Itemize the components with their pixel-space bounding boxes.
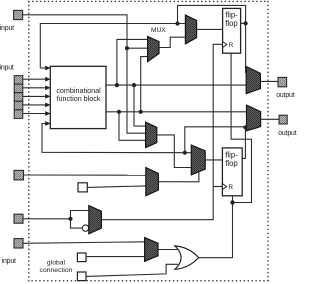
svg-text:global: global (47, 259, 66, 266)
svg-text:connection: connection (40, 267, 73, 274)
programmable bit box S1 (78, 183, 87, 192)
input pad column P2 (5 stacked pads) (14, 76, 23, 119)
inverter bubble (82, 225, 88, 231)
wire: FF1 Q feedback top route (178, 5, 246, 23)
wire: FF2 Q feedback to T4 input, T5 input and comb block bottom input (42, 124, 247, 159)
OR gate (175, 246, 199, 269)
node: T1 input / FF1 feedback junction (175, 21, 179, 25)
node: clock junction at FF2 bottom (230, 200, 234, 204)
mux T7 (reset select) (89, 206, 102, 234)
flip-flop FF2 (222, 148, 242, 196)
wire: P3 to T9 input 1 (24, 174, 146, 176)
node: out2 branch to T2 (139, 110, 143, 114)
wire: T1 output to FF1 D (197, 28, 223, 30)
wire: T5 output to FF2 D (205, 159, 222, 161)
mux T8 (clock select) (145, 238, 158, 262)
programmable bit box S2 (77, 253, 86, 262)
flip-flop FF1 (223, 8, 241, 53)
output pad 2 (279, 115, 287, 124)
svg-text:R: R (229, 42, 234, 49)
node: input1 branch junction (125, 46, 129, 50)
svg-text:function block: function block (57, 94, 101, 103)
node: FF2 Q to T4 junction (243, 125, 247, 129)
input pad P4 (14, 214, 23, 223)
input pad P3 (14, 170, 24, 180)
node: FF1 Q junction (244, 21, 248, 25)
wire: R select net from T7 output up to both flip-flop R inputs (101, 44, 222, 219)
dashed cell boundary (dotted border rectangle) (29, 1, 268, 280)
FF2 R clock-style triangle (222, 184, 226, 190)
output pad 1 (278, 77, 287, 86)
wire: S2 to T8 input 2 (86, 256, 145, 258)
wire: T3 output to output pad 1 (260, 80, 278, 82)
wire: T8 output to OR gate (158, 249, 178, 251)
wire: T2 output up to T1 second input (159, 37, 186, 47)
wire: input P1 to MUX T2 and down to T6 (23, 15, 148, 133)
mux T2 (148, 36, 159, 61)
mux T5 (191, 145, 205, 175)
arrowheads into block (5 pad inputs) (45, 77, 50, 116)
node: P4 branch junction (68, 217, 72, 221)
programmable bit box S3 (77, 272, 86, 281)
arrowhead comb bottom input (45, 121, 50, 126)
mux T1 (top MUX) (185, 15, 196, 44)
wire: FF1 Q down to output buffer T3 input (245, 23, 248, 72)
mux T9 (select generator for T5) (146, 168, 159, 196)
wire: T6 output to T5 lower input (157, 135, 192, 168)
svg-text:MUX: MUX (151, 27, 166, 34)
wire: S1 to T9 input 2 (87, 186, 145, 188)
svg-text:output: output (278, 130, 296, 137)
svg-text:input: input (2, 258, 16, 265)
FF1 R clock-style triangle (223, 42, 227, 48)
wire: comb out2 (y=111.8) to output buffer T4 with branches (106, 57, 247, 141)
combinational function block (50, 66, 106, 128)
svg-text:flop: flop (225, 159, 238, 168)
wire: T9 output to T5 select (bottom) (158, 172, 199, 182)
output buffer T3 (246, 67, 260, 94)
arrowhead block top input (45, 66, 50, 71)
wire: S3 to OR gate lower input (86, 264, 179, 276)
wires: 5 pad inputs with arrows into combinational block (23, 79, 47, 113)
node: feedback to T5 junction (183, 151, 187, 155)
svg-text:R: R (228, 184, 233, 191)
input pad P1 (top left) (14, 10, 23, 19)
wire: clock net from OR gate to FF1 and FF2 clock (bottom pins) (199, 53, 252, 258)
svg-text:output: output (276, 92, 294, 99)
svg-text:input: input (0, 65, 14, 72)
wire: T4 output to output pad 2 (261, 118, 280, 120)
node: out1 branch to T2 (115, 83, 119, 87)
wire: P5 to T8 input 1 (23, 242, 145, 244)
input pad P5 (bottom) (14, 239, 23, 248)
svg-text:input: input (0, 25, 14, 32)
svg-text:flop: flop (225, 19, 238, 28)
wire: comb out1 (y=85) to output buffer T3 with branches (106, 39, 246, 126)
wire: P4 to T7 inputs (direct and inverted) (23, 211, 89, 229)
wire: net from FF1 feedback corner down into block top input (40, 24, 185, 69)
output buffer T4 (247, 105, 261, 131)
node: out2 branch to T6 (117, 110, 121, 114)
mux T6 (146, 122, 157, 147)
node: out1 branch to T6 (132, 83, 136, 87)
